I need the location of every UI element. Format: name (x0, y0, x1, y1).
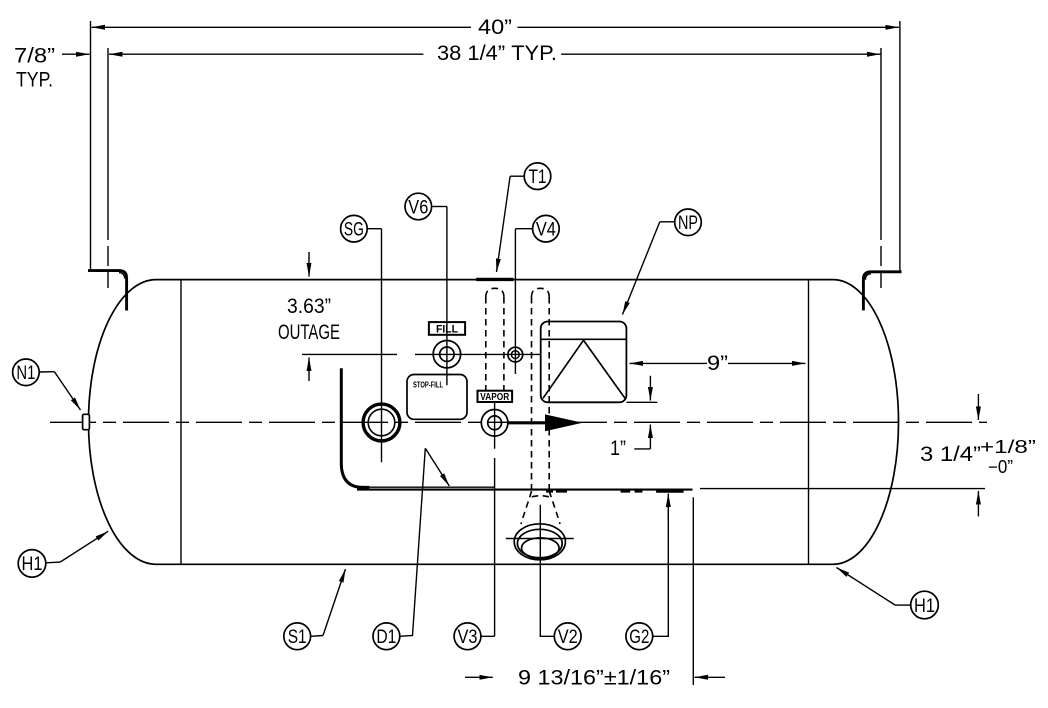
bell crosshair vertical / V2 leader (540, 505, 554, 637)
tank shell bottom line (156, 563, 833, 565)
callout D1 (373, 623, 400, 650)
40 inch extension line left (90, 21, 92, 270)
right hold-down bracket (863, 272, 901, 311)
svg-text:N1: N1 (16, 363, 35, 384)
svg-text:9”: 9” (707, 352, 728, 375)
V4 fitting small circle (508, 347, 523, 362)
svg-text:NP: NP (678, 213, 698, 234)
svg-text:9 13/16”±1/16”: 9 13/16”±1/16” (518, 667, 670, 690)
svg-text:3 1/4”: 3 1/4” (920, 443, 981, 466)
9 13/16 dimension (692, 497, 694, 685)
bell crosshair horizontal (506, 538, 574, 540)
38 1/4 dimension line (109, 53, 423, 55)
svg-text:V2: V2 (558, 627, 578, 648)
svg-text:SG: SG (344, 220, 364, 241)
svg-text:V6: V6 (408, 197, 428, 218)
dip tube nub 1 (546, 490, 567, 492)
svg-text:−0”: −0” (988, 457, 1013, 477)
svg-text:V3: V3 (458, 627, 478, 648)
fill valve (433, 341, 460, 368)
svg-text:1”: 1” (610, 437, 626, 460)
callout S1 (284, 623, 311, 650)
svg-text:D1: D1 (376, 627, 396, 648)
40 inch extension line right (899, 21, 901, 271)
FILL label box (429, 322, 465, 335)
V4 leader vertical (514, 229, 516, 374)
svg-text:OUTAGE: OUTAGE (278, 321, 340, 344)
vapor valve (481, 410, 508, 437)
tank right head (833, 280, 899, 565)
1 inch dimension arrows (649, 376, 651, 401)
callout V6 (405, 193, 432, 220)
3 1/4 dimension (700, 488, 985, 490)
N1 nipple (83, 414, 90, 429)
horizontal centerline (50, 421, 987, 423)
outage level line (302, 353, 541, 355)
SG leader vertical (381, 229, 383, 463)
svg-text:H1: H1 (914, 596, 935, 617)
38 1/4 extension line right (880, 48, 882, 288)
hidden riser tube right pair (532, 288, 550, 490)
sight gauge SG (363, 404, 400, 441)
bell inner ellipse (522, 538, 560, 558)
outage dimension arrows (308, 252, 310, 277)
hidden bell sides (521, 491, 560, 524)
svg-text:+1/8”: +1/8” (980, 437, 1036, 457)
svg-text:V4: V4 (536, 220, 556, 241)
dip tube horizontal bottom line (357, 489, 693, 491)
right head weld seam (808, 280, 810, 565)
7/8 dimension arrow (62, 53, 90, 55)
svg-text:TYP.: TYP. (16, 69, 53, 92)
bell outer ellipse (514, 524, 565, 560)
svg-text:H1: H1 (22, 554, 43, 575)
left hold-down bracket (88, 271, 127, 311)
callout G2 (626, 623, 653, 650)
38 1/4 extension line left (107, 48, 109, 288)
V3 leader vertical (481, 402, 495, 636)
9 inch dimension (630, 362, 708, 364)
svg-text:T1: T1 (529, 167, 547, 188)
callout V2 (554, 623, 581, 650)
internal dip tube bold elbow (341, 368, 369, 487)
nameplate NP (541, 322, 627, 403)
NP plate bottom extension (626, 401, 657, 403)
STOP-FILL placard (407, 375, 467, 420)
T1 pad on tank top (476, 278, 513, 281)
svg-text:G2: G2 (629, 627, 649, 648)
svg-text:7/8”: 7/8” (14, 45, 55, 68)
hidden riser tube left pair (486, 288, 504, 391)
callout SG (341, 215, 368, 242)
dip tube nub 3 (656, 490, 684, 492)
callout H1 right (911, 591, 939, 619)
svg-text:VAPOR: VAPOR (480, 392, 510, 403)
callout N1 (13, 359, 40, 386)
tank shell top line (156, 279, 833, 281)
svg-text:40”: 40” (478, 16, 512, 39)
G2 leader (653, 500, 669, 636)
svg-text:S1: S1 (288, 627, 307, 648)
callout V3 (454, 623, 481, 650)
svg-text:3.63”: 3.63” (287, 295, 331, 318)
callout NP (675, 209, 702, 236)
svg-text:STOP-FILL: STOP-FILL (413, 381, 443, 390)
V6 leader vertical (446, 207, 448, 386)
flow arrow (508, 421, 547, 424)
40 inch dimension line (92, 26, 472, 28)
callout V4 (533, 215, 560, 242)
VAPOR label box (478, 391, 513, 402)
svg-text:38 1/4” TYP.: 38 1/4” TYP. (437, 42, 557, 65)
callout H1 left (18, 550, 46, 578)
bell middle ellipse (517, 529, 562, 557)
dip tube nub 2 (621, 490, 643, 492)
tank left head (88, 280, 156, 565)
dip tube horizontal top line (360, 486, 494, 488)
left head weld seam (180, 280, 182, 565)
callout T1 (524, 163, 551, 190)
